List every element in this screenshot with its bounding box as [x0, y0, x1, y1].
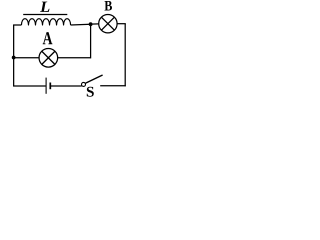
lamp A cross lines [42, 51, 55, 64]
switch S pivot circle [82, 82, 86, 86]
wire: coil to junction node [71, 23, 91, 26]
switch S blade [85, 75, 102, 83]
battery short plate (negative) [49, 83, 51, 90]
wire: bottom rail middle (battery to switch pivot) [50, 85, 81, 87]
wire: bottom rail left (to battery) [13, 85, 46, 87]
inductor L coil (7 loops) [21, 19, 70, 25]
lamp B circle [99, 15, 117, 33]
inductor L iron core bar [23, 14, 67, 16]
wire: junction to lamp B [91, 23, 99, 25]
wire: right vertical rail [124, 24, 126, 87]
wire: left vertical rail [13, 25, 15, 86]
wire: top rail from left corner to coil [13, 24, 21, 26]
battery long plate (positive) [45, 78, 47, 94]
wire: bottom rail right (switch to corner) [100, 85, 126, 87]
wire: lamp B to right corner [117, 23, 126, 25]
wire: riser from lamp A branch up to junction [90, 24, 92, 58]
junction node dot (left rail, middle branch) [12, 56, 16, 60]
wire: middle branch left (junction to lamp A) [14, 57, 39, 59]
label S (switch, serif bold outline) [87, 87, 94, 97]
label A (lamp A, serif bold outline) [43, 32, 53, 44]
wire: lamp A to riser corner [58, 57, 91, 59]
lamp A circle [39, 49, 58, 68]
label B (lamp B, serif bold outline) [104, 1, 111, 10]
label L (inductor, serif bold italic outline) [40, 2, 50, 12]
junction node dot (top, at riser) [89, 22, 93, 26]
lamp B cross lines [101, 17, 114, 30]
